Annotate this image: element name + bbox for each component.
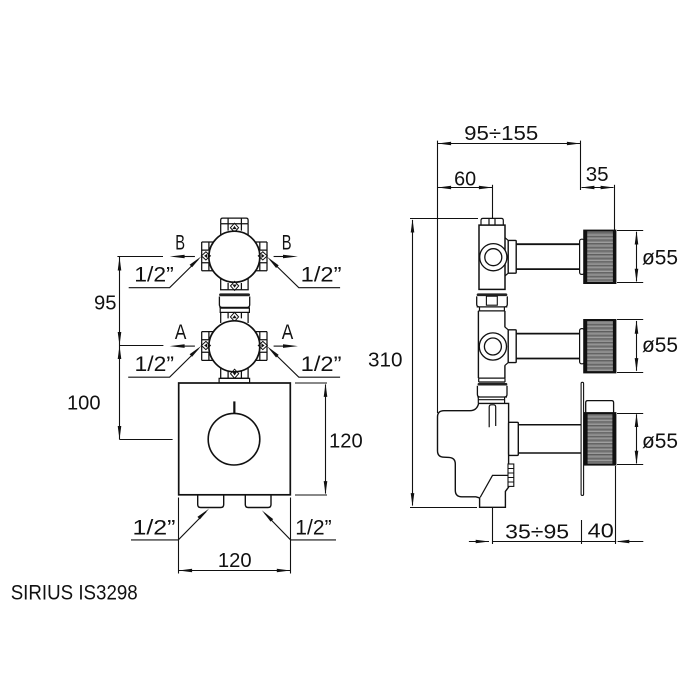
svg-text:B: B: [282, 231, 292, 254]
valve B top cap: [221, 218, 248, 236]
union ring dark band: [219, 293, 250, 296]
side valve A bottom lines: [479, 378, 505, 382]
svg-text:100: 100: [67, 392, 101, 415]
side pipe to thermostat: [478, 397, 504, 403]
thermostat flange: [509, 422, 519, 455]
side valve A front circle: [479, 333, 506, 360]
leader 1/2 A right: [267, 346, 341, 377]
valve B top diamond: [230, 223, 238, 232]
side knob unit B: [505, 231, 616, 283]
valve A bottom collar: [220, 367, 249, 378]
valve B bottom diamond: [231, 281, 239, 290]
svg-text:ø55: ø55: [642, 430, 678, 453]
svg-text:310: 310: [368, 349, 403, 372]
valve A bottom diamond: [231, 369, 239, 378]
svg-text:40: 40: [588, 520, 614, 543]
bottom port left front: [198, 495, 224, 507]
svg-text:SIRIUS IS3298: SIRIUS IS3298: [11, 580, 138, 604]
dim ø55 A: [617, 320, 643, 373]
flare between valve A and body: [219, 378, 250, 383]
dim 35: [582, 187, 614, 189]
side union nut notch: [486, 296, 497, 305]
union nut: [219, 297, 249, 308]
side union nut: [477, 296, 508, 307]
section arrow B right: [274, 231, 298, 258]
bottom dims 35÷95 and 40: [469, 466, 643, 544]
svg-text:35÷95: 35÷95: [505, 521, 569, 544]
side union ring dark band: [477, 293, 508, 296]
valve B side ports: [201, 242, 267, 271]
svg-text:95÷155: 95÷155: [464, 122, 538, 145]
svg-text:1/2”: 1/2”: [134, 263, 174, 287]
thermostat knurled knob: [585, 413, 616, 465]
dim ø55 T: [617, 414, 643, 465]
thermostat knob cap: [586, 401, 614, 414]
dim arrows left column: [118, 257, 122, 440]
svg-text:ø55: ø55: [642, 247, 678, 270]
section arrow A left: [170, 321, 195, 348]
side valve B body: [479, 225, 505, 289]
valve A top cap: [220, 308, 249, 323]
svg-text:95: 95: [94, 292, 117, 315]
dim 60: [438, 187, 492, 189]
svg-text:A: A: [282, 321, 294, 344]
svg-text:60: 60: [454, 167, 476, 190]
side valve B front circle: [480, 244, 507, 271]
svg-text:1/2”: 1/2”: [135, 352, 175, 376]
section arrow B left: [170, 231, 195, 258]
side top cap: [481, 218, 503, 225]
thermostat interior tube: [489, 405, 496, 427]
side lower union nut: [477, 386, 507, 397]
svg-text:1/2”: 1/2”: [133, 515, 176, 539]
dim 310: [410, 219, 478, 508]
wall plate: [581, 382, 584, 495]
side valve A body: [478, 311, 505, 378]
valve A side ports: [201, 332, 267, 361]
svg-text:ø55: ø55: [642, 334, 678, 357]
section arrow A right: [274, 321, 298, 348]
svg-text:1/2”: 1/2”: [301, 263, 342, 287]
svg-text:120: 120: [218, 549, 252, 572]
knob indicator mark: [233, 401, 235, 413]
svg-text:1/2”: 1/2”: [295, 516, 331, 540]
bottom 120 dimension front: [179, 498, 291, 574]
side narrow segment: [478, 307, 505, 311]
side knob unit A: [505, 320, 616, 372]
valve A top diamond: [230, 312, 238, 321]
left dim column line 95/100: [117, 257, 172, 440]
svg-text:35: 35: [586, 163, 609, 186]
valve B circle: [209, 231, 260, 282]
thermostat body side outline: [438, 403, 509, 507]
svg-text:B: B: [175, 231, 185, 254]
valve A circle: [209, 321, 260, 372]
leader 1/2 bottom left: [131, 509, 209, 540]
svg-text:1/2”: 1/2”: [301, 352, 342, 376]
dim 95÷155: [438, 141, 581, 413]
right 120 dimension front: [295, 383, 327, 495]
leader 1/2 A left: [128, 346, 201, 377]
thermostat knob circle front: [208, 413, 260, 465]
thermostat stem: [518, 425, 581, 453]
svg-text:120: 120: [329, 430, 363, 453]
leader 1/2 B right: [267, 257, 341, 288]
thermostat body interior chamfer lines: [480, 475, 508, 497]
leader 1/2 B left: [129, 256, 202, 287]
leader 1/2 bottom right: [262, 510, 336, 540]
bottom port right front: [245, 495, 271, 507]
svg-text:A: A: [175, 321, 187, 344]
valve B bottom collar: [220, 278, 249, 290]
outlet screw: [508, 464, 514, 486]
dim ø55 B: [617, 231, 643, 283]
thermostat body front: [179, 383, 291, 495]
side lower dark band: [478, 383, 508, 386]
